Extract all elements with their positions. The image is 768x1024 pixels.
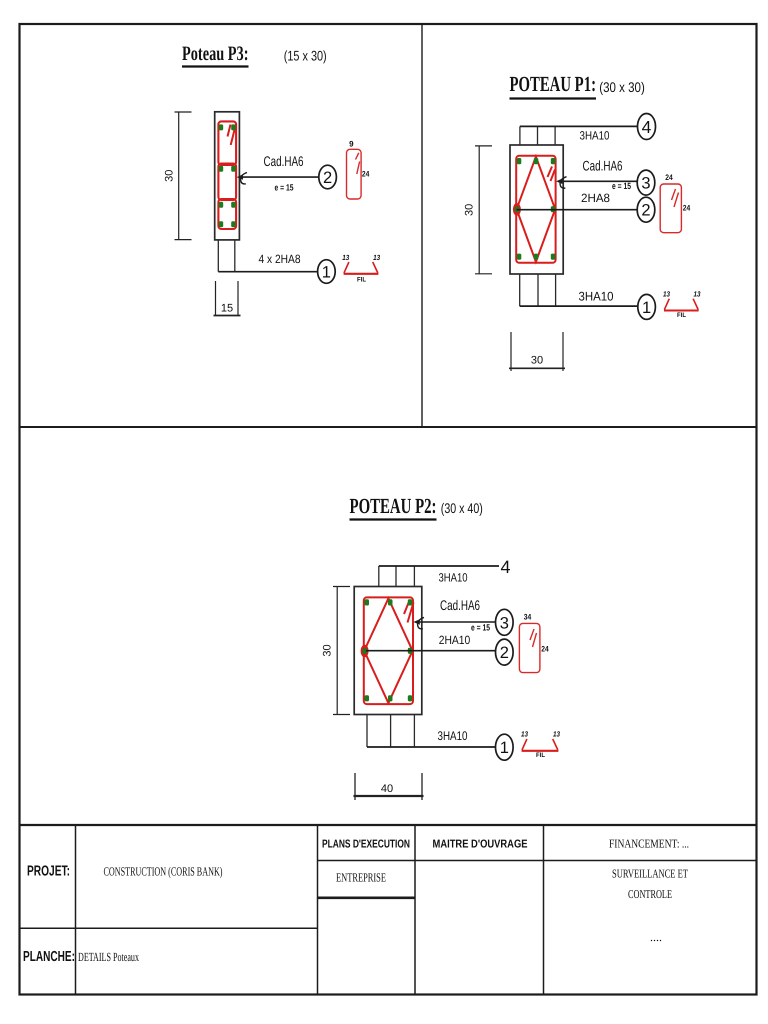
svg-text:3HA10: 3HA10 [580, 129, 610, 143]
svg-text:40: 40 [381, 783, 393, 795]
svg-text:1: 1 [500, 739, 509, 757]
svg-text:CONTROLE: CONTROLE [628, 887, 672, 901]
svg-text:2: 2 [500, 644, 509, 662]
svg-text:e = 15: e = 15 [471, 623, 490, 633]
svg-text:CONSTRUCTION (CORIS BANK): CONSTRUCTION (CORIS BANK) [104, 865, 223, 879]
svg-text:2: 2 [323, 169, 332, 187]
svg-text:30: 30 [464, 204, 476, 216]
svg-text:ENTREPRISE: ENTREPRISE [336, 871, 386, 885]
svg-text:e = 15: e = 15 [275, 183, 294, 193]
svg-text:34: 34 [524, 613, 532, 622]
svg-text:Cad.HA6: Cad.HA6 [440, 597, 480, 613]
svg-text:30: 30 [164, 170, 176, 182]
svg-text:FIL: FIL [677, 312, 686, 319]
svg-text:24: 24 [683, 204, 691, 213]
svg-text:POTEAU P2:: POTEAU P2: [350, 494, 437, 518]
svg-text:2: 2 [641, 202, 650, 220]
svg-text:Cad.HA6: Cad.HA6 [264, 153, 304, 169]
svg-text:POTEAU P1:: POTEAU P1: [510, 72, 597, 96]
svg-text:PROJET:: PROJET: [27, 864, 70, 880]
svg-text:3: 3 [500, 614, 509, 632]
svg-text:(15 x 30): (15 x 30) [284, 48, 327, 64]
svg-text:FIL: FIL [536, 752, 545, 759]
svg-text:PLANCHE:: PLANCHE: [23, 949, 75, 965]
svg-text:9: 9 [349, 140, 354, 149]
svg-text:30: 30 [322, 644, 334, 656]
svg-text:Poteau P3:: Poteau P3: [182, 43, 249, 65]
svg-text:3HA10: 3HA10 [439, 570, 468, 584]
svg-text:SURVEILLANCE ET: SURVEILLANCE ET [612, 867, 688, 881]
svg-text:13: 13 [663, 290, 671, 299]
svg-text:24: 24 [665, 173, 673, 182]
svg-text:13: 13 [373, 253, 381, 262]
svg-text:4: 4 [501, 557, 511, 577]
svg-text:....: .... [650, 930, 662, 944]
svg-text:3HA10: 3HA10 [438, 729, 468, 743]
svg-text:PLANS D'EXECUTION: PLANS D'EXECUTION [322, 839, 410, 851]
svg-text:(30 x 30): (30 x 30) [599, 79, 645, 95]
svg-text:1: 1 [322, 264, 331, 282]
svg-text:30: 30 [531, 355, 543, 367]
svg-text:1: 1 [642, 299, 651, 317]
svg-text:2HA8: 2HA8 [581, 191, 610, 205]
svg-text:13: 13 [694, 290, 702, 299]
svg-text:24: 24 [541, 645, 549, 654]
svg-text:15: 15 [221, 303, 233, 315]
svg-text:(30 x 40): (30 x 40) [441, 500, 483, 516]
svg-text:2HA10: 2HA10 [439, 633, 471, 647]
svg-text:FIL: FIL [357, 277, 366, 284]
svg-text:13: 13 [342, 253, 350, 262]
svg-text:3: 3 [641, 175, 650, 193]
svg-text:FINANCEMENT: ...: FINANCEMENT: ... [609, 837, 689, 851]
svg-text:e = 15: e = 15 [612, 181, 631, 191]
svg-text:13: 13 [553, 730, 561, 739]
svg-text:MAITRE D'OUVRAGE: MAITRE D'OUVRAGE [433, 839, 528, 851]
svg-text:13: 13 [521, 730, 529, 739]
svg-text:24: 24 [362, 169, 370, 178]
svg-text:3HA10: 3HA10 [579, 290, 614, 304]
svg-text:Cad.HA6: Cad.HA6 [583, 158, 623, 174]
svg-text:DETAILS Poteaux: DETAILS Poteaux [78, 950, 139, 964]
svg-text:4: 4 [642, 117, 652, 137]
svg-text:4 x 2HA8: 4 x 2HA8 [259, 252, 301, 266]
